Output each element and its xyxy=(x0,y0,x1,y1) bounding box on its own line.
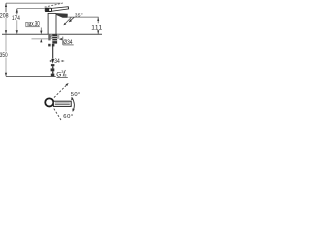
svg-text:35°: 35° xyxy=(75,12,83,17)
svg-text:60°: 60° xyxy=(63,114,73,120)
wire D1 stream arrow xyxy=(63,17,71,25)
node label dia34 xyxy=(59,37,74,46)
svg-text:208: 208 xyxy=(0,13,9,20)
component threaded shank xyxy=(48,34,59,43)
wire counter line xyxy=(2,33,102,35)
wire 50deg dashed xyxy=(54,83,69,98)
svg-text:50°: 50° xyxy=(71,92,81,98)
component lever arm xyxy=(50,7,68,12)
node dim max30 arrows xyxy=(40,28,42,43)
node dim-208 xyxy=(5,3,7,34)
wire bottom hose line xyxy=(6,76,56,78)
node label G3/8 xyxy=(56,69,68,78)
node dim-111 xyxy=(97,17,99,34)
component handle detail knob circle xyxy=(45,98,53,106)
component hose centerline xyxy=(52,44,54,59)
svg-text:111: 111 xyxy=(91,25,102,32)
component hose fittings xyxy=(51,64,55,76)
wire ext line lever top (174 reference) xyxy=(17,8,46,10)
component spout arm xyxy=(56,13,68,18)
node dim-174 xyxy=(16,9,18,34)
svg-text:174: 174 xyxy=(12,15,20,22)
wire deck bottom line xyxy=(32,38,52,40)
svg-text:34: 34 xyxy=(54,59,60,66)
wire ext line spout (111 reference + 35 underline) xyxy=(68,16,98,18)
component raised lever dashed xyxy=(45,3,63,7)
wire swing arc xyxy=(71,97,75,112)
component faucet body xyxy=(48,13,56,34)
component mounting nut xyxy=(48,44,50,47)
wire 60deg dashed xyxy=(54,109,62,121)
component deck section hatch xyxy=(48,34,58,38)
svg-text:max.30: max.30 xyxy=(25,21,40,28)
wire ext line top (208 reference) xyxy=(6,2,61,4)
component hose arrow xyxy=(51,59,54,64)
wire D2 leader 35deg xyxy=(69,17,75,22)
component lever knob xyxy=(45,8,51,11)
node dim-34 xyxy=(50,60,65,62)
svg-text:350: 350 xyxy=(0,52,8,59)
component handle detail shaft xyxy=(53,101,71,106)
node dim-350 xyxy=(5,35,7,77)
